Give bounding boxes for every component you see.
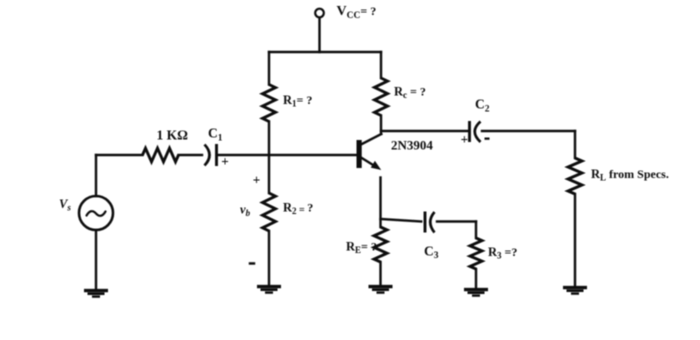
wire : resistor to C1: [179, 154, 203, 156]
ground under Vs: [84, 289, 108, 292]
ground under R3: [464, 288, 488, 291]
label minus below vb: [249, 262, 255, 265]
resistor RL: [568, 158, 582, 194]
wire : rail to Rc: [380, 52, 382, 78]
transistor collector stroke: [361, 134, 381, 145]
wire : C1 to transistor base: [219, 154, 357, 156]
svg-text:C1: C1: [208, 126, 223, 144]
svg-text:Vs: Vs: [59, 197, 71, 213]
wire : VCC lead: [318, 18, 320, 52]
svg-text:R1= ?: R1= ?: [283, 93, 312, 109]
power terminal VCC: [315, 9, 324, 18]
svg-text:R2 = ?: R2 = ?: [283, 201, 313, 217]
resistor Rc: [375, 78, 388, 116]
wire : Rc to collector corner: [380, 116, 382, 135]
wire : C2 to RL: [482, 130, 575, 132]
label minus at C2: [485, 138, 490, 140]
wire : emitter node to C3: [381, 219, 422, 222]
wire : RL to ground: [574, 194, 576, 287]
svg-text:VCC= ?: VCC= ?: [337, 4, 377, 21]
ground under RL: [563, 286, 587, 289]
wire : Vs to ground: [95, 230, 97, 290]
svg-text:R3 =?: R3 =?: [488, 245, 517, 260]
svg-text:2N3904: 2N3904: [391, 137, 433, 152]
wire : emitter lead down: [379, 178, 381, 228]
resistor R1: [263, 85, 276, 122]
svg-text:RE= ?: RE= ?: [346, 240, 377, 256]
wire : collector node to C2: [381, 130, 469, 132]
capacitor C2: [468, 121, 471, 142]
svg-text:RL from Specs.: RL from Specs.: [591, 167, 669, 183]
svg-text:+: +: [221, 154, 229, 169]
ground under R2: [257, 285, 281, 288]
ground under RE: [369, 285, 393, 288]
svg-text:C2: C2: [475, 97, 490, 115]
resistor R2: [263, 193, 276, 231]
capacitor C3: [424, 212, 427, 233]
wire : R3 to ground: [475, 269, 477, 289]
wire : RE to ground: [379, 262, 381, 286]
wire : R2 to ground: [268, 231, 270, 286]
svg-text:1 KΩ: 1 KΩ: [157, 128, 189, 143]
transistor emitter stroke with arrow: [361, 158, 376, 167]
wire : R1 to base node and R2: [268, 122, 270, 194]
resistor R3: [470, 238, 482, 269]
svg-text:Rc = ?: Rc = ?: [394, 85, 426, 101]
svg-text:C3: C3: [424, 244, 439, 262]
svg-text:+: +: [461, 132, 469, 147]
wire : C3 to R3: [437, 220, 476, 222]
svg-text:vb: vb: [240, 203, 251, 219]
svg-text:+: +: [253, 173, 261, 188]
wire : top supply rail: [269, 51, 381, 53]
source Vs: [79, 196, 113, 230]
wire : Vs to input node: [95, 155, 97, 196]
transistor Q1 2N3904 base bar: [357, 140, 362, 168]
resistor RE: [374, 227, 387, 262]
wire : rail to R1: [268, 52, 270, 85]
resistor 1 KOhm: [143, 148, 179, 162]
capacitor C1: [205, 145, 210, 166]
